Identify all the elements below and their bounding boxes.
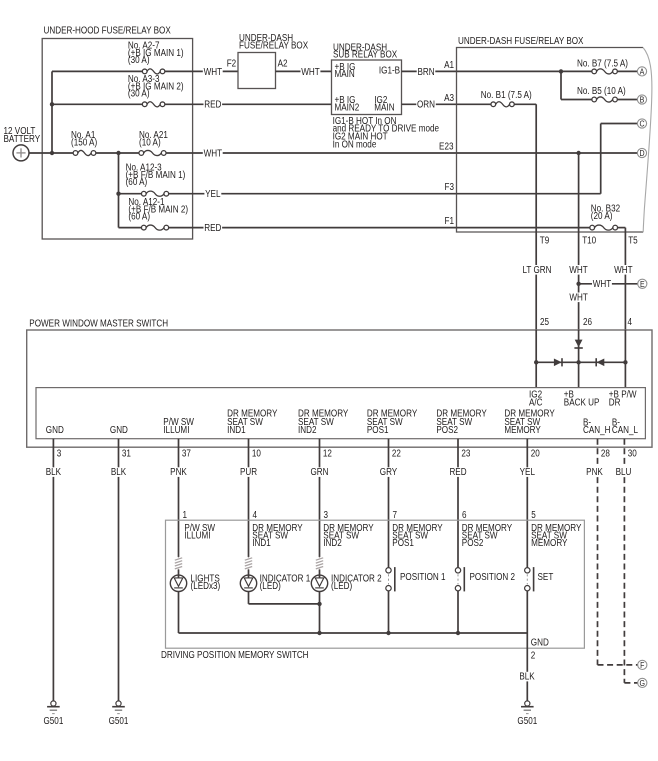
svg-text:12: 12 xyxy=(323,448,332,459)
svg-text:31: 31 xyxy=(122,448,131,459)
fuse No. A12-1 (60 A) xyxy=(141,225,168,230)
svg-text:SET: SET xyxy=(538,571,554,582)
svg-text:(LED): (LED) xyxy=(260,580,281,591)
svg-text:POWER WINDOW MASTER SWITCH: POWER WINDOW MASTER SWITCH xyxy=(29,318,168,329)
fuse No. A1 (150 A) xyxy=(73,150,96,155)
svg-text:DR: DR xyxy=(609,397,621,408)
resistor R1 (illumination) xyxy=(175,557,182,570)
svg-text:No. B7 (7.5 A): No. B7 (7.5 A) xyxy=(577,58,628,69)
svg-text:WHT: WHT xyxy=(569,292,588,303)
wire under-hood bus vertical xyxy=(51,71,53,153)
wire terminal C branch xyxy=(601,123,638,125)
svg-text:A1: A1 xyxy=(444,59,454,70)
svg-text:T9: T9 xyxy=(540,235,549,246)
svg-text:T5: T5 xyxy=(628,235,637,246)
svg-text:T10: T10 xyxy=(582,235,596,246)
wire +B IG MAIN 2 row (RED) xyxy=(52,103,143,105)
svg-text:MAIN2: MAIN2 xyxy=(335,102,360,113)
svg-text:GND: GND xyxy=(531,637,549,648)
terminal B xyxy=(637,95,646,105)
svg-text:(60 A): (60 A) xyxy=(128,211,150,222)
wire LED1 to ground bus xyxy=(178,592,180,634)
svg-text:MAIN: MAIN xyxy=(335,68,355,79)
svg-text:POS1: POS1 xyxy=(367,424,389,435)
svg-text:BATTERY: BATTERY xyxy=(4,133,41,144)
wire color RED row5 xyxy=(204,223,223,233)
svg-text:26: 26 xyxy=(583,316,592,327)
svg-text:20: 20 xyxy=(531,448,540,459)
fuse No. A2-7 (30 A) xyxy=(142,69,165,74)
wire color GRN pin 12 xyxy=(310,467,330,477)
wire pin 4 inside switch xyxy=(624,330,626,388)
svg-text:POS2: POS2 xyxy=(462,537,484,548)
svg-text:LT GRN: LT GRN xyxy=(522,264,551,275)
node battery bus junction xyxy=(50,151,54,155)
resistor R2 (indicator 1) xyxy=(245,557,252,570)
wire A1 row inside box xyxy=(457,70,593,72)
wire pin 20 (YEL) to SET xyxy=(526,439,528,568)
svg-text:PUR: PUR xyxy=(240,466,258,477)
svg-text:3: 3 xyxy=(324,509,329,520)
svg-text:BLK: BLK xyxy=(519,671,534,682)
svg-text:(20 A): (20 A) xyxy=(591,210,613,221)
svg-text:GND: GND xyxy=(46,424,64,435)
wire color BLK pin 3 xyxy=(45,467,62,477)
svg-text:D: D xyxy=(639,148,644,158)
svg-text:BLU: BLU xyxy=(616,466,632,477)
wire down to T5 xyxy=(624,228,626,232)
svg-text:10: 10 xyxy=(252,448,261,459)
wire color WHT A2 xyxy=(301,67,321,77)
wire diode bus horizontal xyxy=(536,361,625,363)
node bus to RED row xyxy=(50,102,54,106)
resistor R3 (indicator 2) xyxy=(316,557,323,570)
driving position memory switch box xyxy=(166,520,585,648)
svg-text:GRY: GRY xyxy=(380,466,397,477)
svg-text:MEMORY: MEMORY xyxy=(531,537,567,548)
node bus IND2 xyxy=(317,631,321,635)
wire GND pin 31 (BLK) xyxy=(118,439,120,701)
wire E23 row to terminal D xyxy=(457,152,638,154)
node E branch junction xyxy=(576,282,580,286)
wire A21 to E23 xyxy=(166,152,457,154)
node diode bus centre xyxy=(576,360,580,364)
wire A3-3 to sub relay box xyxy=(165,103,332,105)
svg-text:WHT: WHT xyxy=(593,278,612,289)
wire pin 12 (GRN) to IND2 xyxy=(319,439,321,557)
under-dash box torn right edge xyxy=(643,48,652,233)
wire B1 down to T9 xyxy=(535,104,537,232)
svg-text:G501: G501 xyxy=(109,715,129,726)
svg-text:ILLUMI: ILLUMI xyxy=(163,424,189,435)
LED INDICATOR 2 xyxy=(311,570,327,592)
wire F/B bus vertical xyxy=(118,153,120,228)
wire branch to terminal E xyxy=(579,283,638,285)
svg-text:WHT: WHT xyxy=(301,66,320,77)
wire color GRY pin 22 xyxy=(379,467,398,477)
svg-text:C: C xyxy=(639,119,644,129)
svg-text:E: E xyxy=(640,279,645,289)
LED LIGHTS (LEDx3) xyxy=(170,570,186,592)
svg-text:IG1-B: IG1-B xyxy=(379,65,400,76)
under-dash fuse/relay box (main) xyxy=(457,48,644,233)
LED INDICATOR 1 xyxy=(240,570,256,592)
wire POSITION 2 to bus xyxy=(457,591,459,633)
wire to fuse B5 xyxy=(561,99,592,101)
svg-text:(150 A): (150 A) xyxy=(71,137,97,148)
svg-text:30: 30 xyxy=(628,448,637,459)
svg-text:G: G xyxy=(640,678,645,688)
wire color WHT row1 xyxy=(203,67,223,77)
wire color BLK pin 31 xyxy=(110,467,127,477)
terminal A xyxy=(637,67,646,77)
svg-text:UNDER-DASH FUSE/RELAY BOX: UNDER-DASH FUSE/RELAY BOX xyxy=(458,35,583,46)
svg-text:RED: RED xyxy=(204,99,222,110)
svg-text:YEL: YEL xyxy=(520,466,535,477)
svg-text:RED: RED xyxy=(449,466,467,477)
svg-text:F1: F1 xyxy=(445,215,454,226)
wire SET to bus and GND pin 2 xyxy=(526,591,528,633)
svg-text:IND2: IND2 xyxy=(323,537,341,548)
node bus POS1 xyxy=(386,631,390,635)
fuse No. A12-3 (60 A) xyxy=(141,191,168,196)
svg-text:1: 1 xyxy=(183,509,188,520)
wire color WHT E branch xyxy=(592,279,612,289)
svg-text:WHT: WHT xyxy=(569,264,588,275)
wire color BLK pin 2 xyxy=(519,672,536,682)
svg-text:GRN: GRN xyxy=(310,466,328,477)
wire pin 25 inside switch xyxy=(535,330,537,388)
wire color YEL pin 20 xyxy=(519,467,536,477)
wire +B F/B MAIN 1 row (YEL) xyxy=(119,193,142,195)
wire battery to fuse A1 xyxy=(29,152,73,154)
fuse No. B5 (10 A) xyxy=(592,97,618,102)
terminal E xyxy=(638,279,647,289)
svg-text:7: 7 xyxy=(393,509,398,520)
svg-text:5: 5 xyxy=(531,509,536,520)
wire A12-3 to F3 xyxy=(168,193,456,195)
wire B5 to terminal B xyxy=(617,99,637,101)
fuse No. B32 (20 A) xyxy=(590,225,618,230)
svg-text:MEMORY: MEMORY xyxy=(504,424,540,435)
svg-text:A2: A2 xyxy=(278,58,288,69)
svg-text:(30 A): (30 A) xyxy=(128,88,150,99)
svg-text:G501: G501 xyxy=(43,715,63,726)
svg-text:F3: F3 xyxy=(445,181,454,192)
wire A2 to sub relay box xyxy=(276,70,332,72)
wire color WHT T5 xyxy=(613,265,633,275)
svg-text:(LED): (LED) xyxy=(331,580,352,591)
wire color WHT row3 xyxy=(203,149,223,159)
wire color BRN xyxy=(417,67,436,77)
wire color BLU pin 30 xyxy=(615,467,632,477)
svg-text:BRN: BRN xyxy=(417,66,434,77)
svg-text:2: 2 xyxy=(531,650,536,661)
diode D1 (down, on +B BACK UP line) xyxy=(575,340,583,348)
svg-text:UNDER-HOOD FUSE/RELAY BOX: UNDER-HOOD FUSE/RELAY BOX xyxy=(44,25,171,36)
power window master switch box xyxy=(27,330,652,447)
svg-text:(60 A): (60 A) xyxy=(126,176,148,187)
wire pin 26 inside switch xyxy=(578,330,580,388)
svg-text:23: 23 xyxy=(461,448,470,459)
svg-text:A/C: A/C xyxy=(529,397,543,408)
svg-text:CAN_H: CAN_H xyxy=(583,424,611,435)
svg-text:F2: F2 xyxy=(227,58,236,69)
wire T10 to pin 26 (WHT) xyxy=(578,232,580,330)
wire B1 output xyxy=(514,103,536,105)
wire pin 37 (PNK) to illumination xyxy=(178,439,180,557)
terminal F xyxy=(638,660,647,670)
svg-text:E23: E23 xyxy=(439,141,453,152)
svg-text:POS2: POS2 xyxy=(436,424,458,435)
svg-text:B: B xyxy=(640,95,645,105)
wire pin 23 (RED) to POS2 xyxy=(457,439,459,568)
svg-text:BLK: BLK xyxy=(111,466,126,477)
svg-text:CAN_L: CAN_L xyxy=(612,424,638,435)
wire T9 to pin 25 (LT GRN) xyxy=(535,232,537,330)
switch SET xyxy=(525,567,534,591)
terminal C xyxy=(637,119,646,129)
wire +B IG MAIN 1 row (WHT) xyxy=(52,70,143,72)
svg-text:6: 6 xyxy=(462,509,467,520)
svg-text:YEL: YEL xyxy=(205,188,220,199)
node bus POS2 xyxy=(456,631,460,635)
wire A3 row inside box xyxy=(457,103,492,105)
wire color ORN xyxy=(416,100,436,110)
svg-text:3: 3 xyxy=(57,448,62,459)
wire junction down to T10 xyxy=(578,153,580,232)
terminal D xyxy=(637,148,646,158)
svg-text:RED: RED xyxy=(204,222,222,233)
wire LED3 to ground bus xyxy=(319,592,321,634)
svg-text:A3: A3 xyxy=(444,92,454,103)
svg-text:BACK UP: BACK UP xyxy=(564,397,600,408)
svg-text:A: A xyxy=(640,67,645,77)
wire POSITION 1 to bus xyxy=(388,591,390,633)
svg-text:WHT: WHT xyxy=(204,66,223,77)
master switch inner terminal box xyxy=(36,388,645,439)
svg-text:37: 37 xyxy=(182,448,191,459)
svg-text:(LEDx3): (LEDx3) xyxy=(191,580,221,591)
fuse No. B1 (7.5 A) xyxy=(491,102,514,107)
svg-text:ILLUMI: ILLUMI xyxy=(184,530,210,541)
node A1 output junction xyxy=(116,151,120,155)
fuse No. A3-3 (30 A) xyxy=(142,102,165,107)
svg-text:PNK: PNK xyxy=(586,466,603,477)
wire LED2 to IND2 column xyxy=(248,592,250,604)
fuse No. B7 (7.5 A) xyxy=(592,69,618,74)
fuse No. A21 (10 A) xyxy=(139,150,166,155)
svg-text:25: 25 xyxy=(540,316,549,327)
diode D2 (pointing right) xyxy=(554,359,562,367)
svg-text:IND1: IND1 xyxy=(227,424,245,435)
svg-text:No. B1 (7.5 A): No. B1 (7.5 A) xyxy=(481,89,532,100)
svg-text:4: 4 xyxy=(628,316,633,327)
wire color PNK pin 28 xyxy=(585,467,603,477)
wire color PNK pin 37 xyxy=(169,467,187,477)
under-hood fuse/relay box xyxy=(42,39,192,240)
svg-text:PNK: PNK xyxy=(170,466,187,477)
diode D3 (pointing left) xyxy=(597,359,605,367)
node diode bus left xyxy=(534,360,538,364)
wire F3 row xyxy=(457,193,601,195)
svg-text:POSITION 1: POSITION 1 xyxy=(400,571,446,582)
wire color RED row2 xyxy=(204,100,223,110)
svg-text:(10 A): (10 A) xyxy=(139,137,161,148)
battery B1 (12 volt battery) xyxy=(13,145,29,161)
wire pin 22 (GRY) to POS1 xyxy=(388,439,390,568)
svg-text:MAIN: MAIN xyxy=(374,102,394,113)
wire +B F/B MAIN 2 row (RED) xyxy=(119,227,142,229)
node diode bus right xyxy=(623,360,627,364)
svg-text:WHT: WHT xyxy=(204,148,223,159)
node B7/B5 junction xyxy=(559,69,563,73)
svg-text:SUB RELAY BOX: SUB RELAY BOX xyxy=(333,49,397,60)
svg-text:IND1: IND1 xyxy=(252,537,270,548)
wire F1 row xyxy=(457,227,591,229)
svg-text:In ON mode: In ON mode xyxy=(333,139,377,150)
wire pin 30 (BLU dashed) to terminal G xyxy=(623,439,625,683)
wire color WHT T10 xyxy=(569,265,589,275)
svg-text:No. B5 (10 A): No. B5 (10 A) xyxy=(577,85,626,96)
wire color WHT below junction xyxy=(569,293,589,303)
wire ground bus horizontal xyxy=(179,632,528,634)
wire GND pin 3 (BLK) xyxy=(52,439,54,701)
svg-text:FUSE/RELAY BOX: FUSE/RELAY BOX xyxy=(239,40,308,51)
wire A2-7 to F2 xyxy=(165,70,238,72)
wire C down to F3 row xyxy=(600,124,602,194)
wire color YEL xyxy=(204,189,221,199)
svg-text:(30 A): (30 A) xyxy=(128,54,150,65)
svg-text:IND2: IND2 xyxy=(298,424,316,435)
ground G501 (memory switch) xyxy=(521,701,534,714)
wire B7 to terminal A xyxy=(617,70,637,72)
svg-text:F: F xyxy=(640,660,644,670)
svg-text:POSITION 2: POSITION 2 xyxy=(470,571,516,582)
svg-text:22: 22 xyxy=(392,448,401,459)
wire color LT GRN xyxy=(522,265,552,275)
wire IG1-B to A1 (BRN) xyxy=(402,70,457,72)
terminal G xyxy=(638,678,647,688)
wire junction down to B5 xyxy=(560,71,562,99)
wire B32 to T5 xyxy=(617,227,625,229)
ground G501 (pin 31) xyxy=(112,701,125,714)
wire pin 10 (PUR) to IND1 xyxy=(248,439,250,557)
svg-text:4: 4 xyxy=(253,509,258,520)
svg-text:DRIVING POSITION MEMORY SWITCH: DRIVING POSITION MEMORY SWITCH xyxy=(161,649,309,660)
wire T5 to pin 4 (WHT) xyxy=(624,232,626,330)
svg-text:ORN: ORN xyxy=(417,99,435,110)
svg-text:BLK: BLK xyxy=(46,466,61,477)
switch POSITION 1 xyxy=(386,567,395,591)
svg-text:28: 28 xyxy=(601,448,610,459)
under-dash fuse/relay box (connector F2-A2) xyxy=(238,53,276,89)
svg-text:WHT: WHT xyxy=(614,264,633,275)
under-dash sub relay box U1 xyxy=(332,60,402,115)
switch POSITION 2 xyxy=(455,567,464,591)
wire color PUR pin 10 xyxy=(239,467,258,477)
wire pin 28 (PNK dashed) to terminal F xyxy=(597,439,599,665)
ground G501 (pin 3) xyxy=(47,701,60,714)
wire A12-1 to F1 xyxy=(168,227,456,229)
svg-text:G501: G501 xyxy=(517,715,537,726)
node IND1/IND2 junction xyxy=(317,602,321,606)
node E23/T10 junction xyxy=(576,151,580,155)
svg-text:POS1: POS1 xyxy=(392,537,414,548)
svg-text:GND: GND xyxy=(110,424,128,435)
wire color RED pin 23 xyxy=(449,467,468,477)
wire IG2 MAIN to A3 (ORN) xyxy=(402,103,457,105)
node bus to YEL row xyxy=(116,192,120,196)
